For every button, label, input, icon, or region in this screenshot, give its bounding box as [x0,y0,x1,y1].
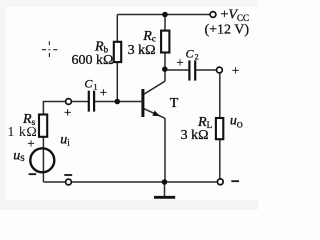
svg-text:+: + [176,54,183,69]
wire: C2 to output terminal [196,69,216,71]
wire: source to bottom rail [42,172,44,182]
wire: bottom rail left [43,181,65,183]
junction: emitter / ground [162,179,168,185]
junction: base / Rb [115,99,121,105]
wire: emitter vertical [164,118,166,182]
capacitor C1 plates [89,91,94,112]
terminal: output bottom [217,179,223,185]
resistor Rb [114,42,121,62]
svg-text:T: T [170,96,179,111]
wire: top supply rail [117,14,210,16]
source uS circle [30,148,54,172]
terminal: input bottom [66,179,72,185]
polarity - input [64,174,72,176]
transistor T base bar [141,89,144,117]
wire: collector branch vertical [164,15,166,82]
svg-text:+: + [64,104,71,119]
resistor Rs [39,115,47,137]
terminal: VCC [210,12,216,18]
wire: output branch vertical [219,73,221,182]
svg-text:3 kΩ: 3 kΩ [181,128,209,143]
wire: bottom rail right [71,181,217,183]
wire: emitter diagonal [144,109,165,119]
svg-text:3 kΩ: 3 kΩ [128,43,156,58]
wire: Rb branch vertical [116,15,118,102]
junction: top rail / Rc [162,12,168,18]
wire: input terminal to Rs corner [43,102,65,149]
ground [154,196,175,199]
emitter arrow head [152,111,160,117]
terminal: output top [217,67,223,73]
svg-text:+: + [232,62,239,77]
svg-text:(+12 V): (+12 V) [205,23,250,38]
svg-text:+: + [100,84,107,99]
terminal: input top [66,99,72,105]
junction: collector / C2 [162,66,168,72]
polarity - output [231,180,239,182]
polarity - source [29,173,37,175]
wire: collector diagonal [144,81,165,94]
resistor Rc [161,31,169,53]
svg-text:600 kΩ: 600 kΩ [72,53,114,68]
wire: C1 to base [95,101,141,103]
wire: input terminal to C1 [71,101,88,103]
resistor RL [216,118,223,139]
wire: ground stub [164,182,166,197]
capacitor C2 plates [189,60,195,80]
wire: C2 tap [165,69,188,71]
svg-text:+: + [27,135,34,150]
center mark [42,41,58,57]
wire: through source [42,149,44,172]
